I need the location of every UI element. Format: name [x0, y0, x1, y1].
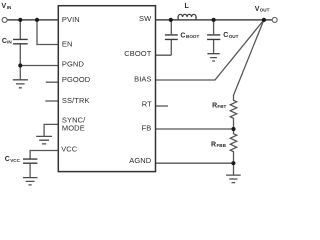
svg-text:FB: FB — [142, 123, 152, 132]
svg-text:OUT: OUT — [260, 8, 270, 13]
svg-text:C: C — [5, 156, 10, 163]
svg-text:BOOT: BOOT — [186, 34, 199, 39]
svg-text:AGND: AGND — [129, 156, 152, 165]
svg-text:VCC: VCC — [10, 158, 20, 163]
svg-text:VCC: VCC — [61, 144, 78, 153]
svg-text:C: C — [223, 32, 228, 39]
svg-text:BIAS: BIAS — [134, 75, 152, 84]
svg-text:PGOOD: PGOOD — [62, 75, 91, 84]
svg-text:FBB: FBB — [217, 143, 227, 148]
svg-text:IN: IN — [7, 40, 12, 45]
svg-text:R: R — [212, 103, 217, 110]
svg-text:PGND: PGND — [62, 60, 85, 69]
svg-text:C: C — [180, 33, 185, 40]
svg-text:OUT: OUT — [229, 34, 239, 39]
svg-text:IN: IN — [7, 5, 12, 10]
svg-text:FBT: FBT — [217, 104, 226, 109]
svg-text:PVIN: PVIN — [62, 15, 80, 24]
svg-text:R: R — [211, 142, 216, 149]
svg-text:MODE: MODE — [62, 123, 85, 132]
svg-text:SS/TRK: SS/TRK — [62, 96, 90, 105]
svg-text:L: L — [185, 3, 190, 10]
svg-text:RT: RT — [142, 99, 152, 108]
svg-text:EN: EN — [62, 39, 73, 48]
svg-text:SW: SW — [139, 14, 152, 23]
svg-text:CBOOT: CBOOT — [124, 49, 151, 58]
